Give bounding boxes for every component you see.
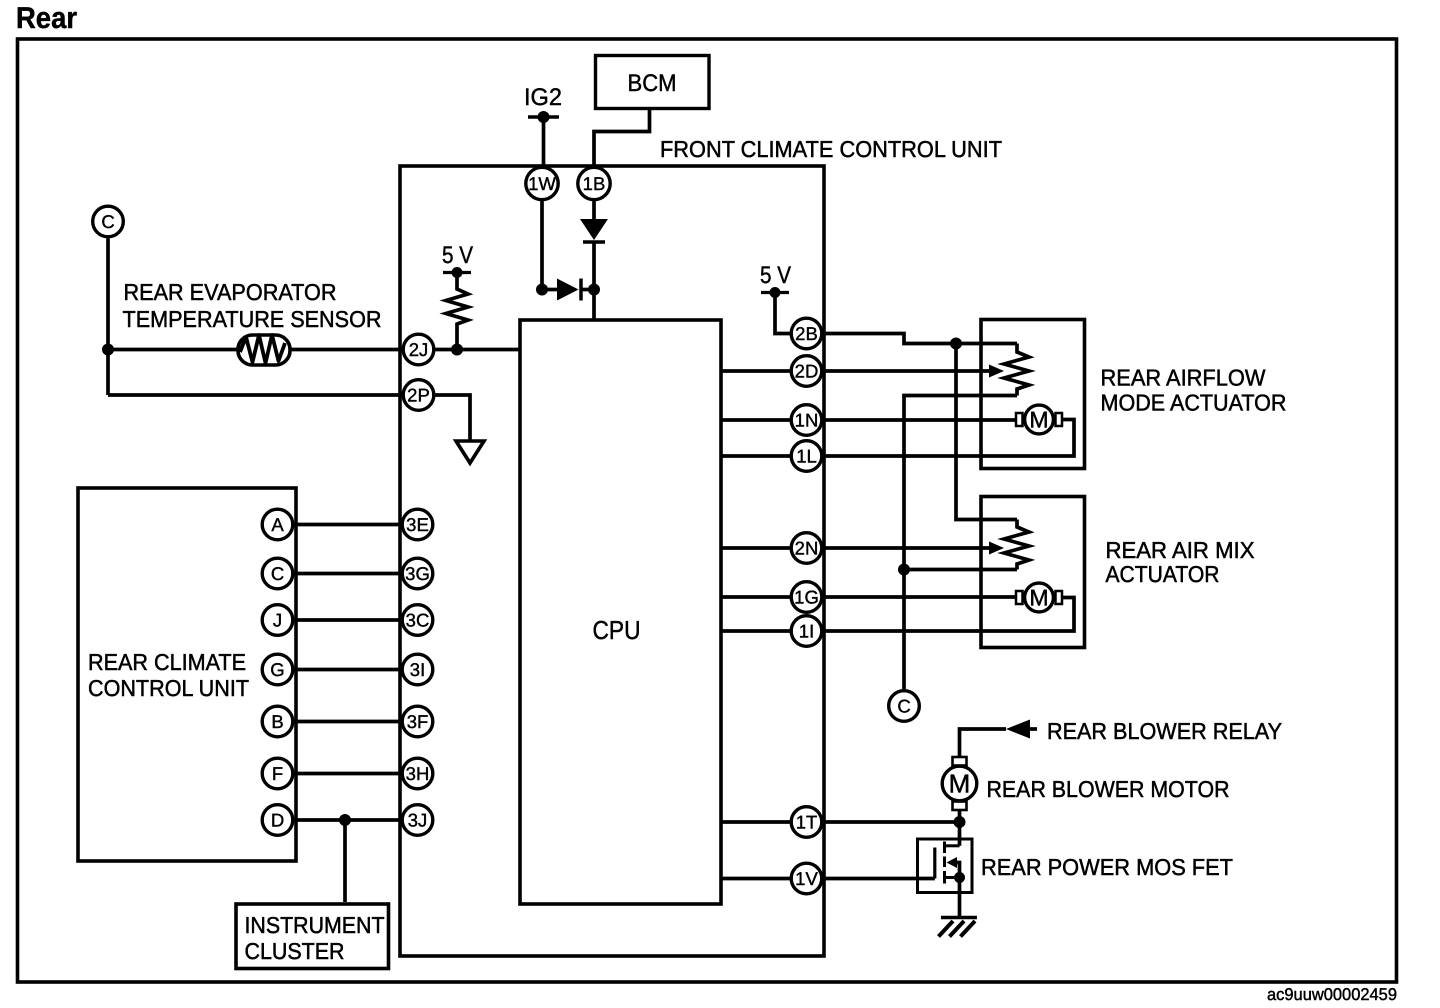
svg-text:REAR POWER MOS FET: REAR POWER MOS FET xyxy=(981,854,1233,880)
svg-text:CONTROL UNIT: CONTROL UNIT xyxy=(88,675,249,701)
pin 1W xyxy=(526,167,558,199)
BCM box U2 xyxy=(596,56,710,109)
pin 3I xyxy=(402,654,433,685)
wire to instrument cluster xyxy=(343,820,347,902)
pin 2N xyxy=(791,533,822,564)
junction dot supply branch xyxy=(950,338,962,350)
wire CPU to 2N xyxy=(721,546,790,550)
wire R2 return xyxy=(904,568,1017,572)
svg-text:M: M xyxy=(1029,407,1048,433)
svg-text:1G: 1G xyxy=(794,587,819,608)
svg-text:REAR BLOWER RELAY: REAR BLOWER RELAY xyxy=(1047,718,1282,744)
wiper arrow air mix xyxy=(989,542,1004,555)
svg-text:F: F xyxy=(272,763,283,784)
wire 2P to ground xyxy=(435,395,470,441)
pin 1V xyxy=(791,863,822,894)
wire 1L to motor M1 return xyxy=(823,420,1074,457)
svg-text:IG2: IG2 xyxy=(524,84,562,111)
pin 2B xyxy=(791,318,822,349)
junction dot sensor branch xyxy=(102,344,114,356)
5V power symbol right xyxy=(761,287,789,298)
wire 1I to motor M2 return xyxy=(823,598,1074,632)
wire CPU to 1V xyxy=(721,877,790,881)
svg-text:FRONT CLIMATE CONTROL UNIT: FRONT CLIMATE CONTROL UNIT xyxy=(660,136,1002,162)
pin F xyxy=(262,758,293,789)
pin 3G xyxy=(402,558,433,589)
5V power symbol left xyxy=(443,267,471,278)
svg-text:MODE ACTUATOR: MODE ACTUATOR xyxy=(1101,390,1287,416)
wire from C down xyxy=(106,239,110,396)
svg-text:Rear: Rear xyxy=(16,2,77,35)
rear climate control unit box xyxy=(78,488,296,861)
wire 2J to CPU xyxy=(435,348,520,352)
wire 2D wiper xyxy=(823,369,990,373)
svg-text:1B: 1B xyxy=(583,173,606,194)
diode D2 xyxy=(542,279,594,301)
pin 1G xyxy=(791,582,822,613)
junction dot 2J node xyxy=(451,344,463,356)
rear airflow mode actuator box xyxy=(981,320,1085,469)
junction dot blower node xyxy=(954,816,966,828)
svg-text:M: M xyxy=(1029,585,1048,611)
svg-text:REAR BLOWER MOTOR: REAR BLOWER MOTOR xyxy=(987,776,1230,802)
pin C xyxy=(262,558,293,589)
junction dot return bus xyxy=(898,564,910,576)
label REAR CLIMATE CONTROL UNIT xyxy=(88,649,249,701)
wire J to 3C xyxy=(278,618,418,622)
svg-text:3G: 3G xyxy=(405,563,430,584)
svg-text:3J: 3J xyxy=(408,810,428,831)
svg-text:INSTRUMENT: INSTRUMENT xyxy=(245,912,385,938)
wire 1T to node xyxy=(823,820,960,824)
relay arrow xyxy=(1006,720,1037,739)
svg-text:C: C xyxy=(271,563,284,584)
svg-text:C: C xyxy=(101,211,114,232)
svg-text:3H: 3H xyxy=(406,763,430,784)
svg-text:1T: 1T xyxy=(796,812,818,833)
wire 1B down to diode D1 xyxy=(592,198,596,221)
wire CPU to 1I xyxy=(721,629,790,633)
wire 1W down to diode junction xyxy=(540,198,544,290)
svg-text:2J: 2J xyxy=(409,339,429,360)
thermistor sensor symbol xyxy=(238,335,290,365)
label REAR AIRFLOW MODE ACTUATOR xyxy=(1101,365,1287,416)
svg-text:B: B xyxy=(271,711,283,732)
wire 5V to 2B xyxy=(775,293,790,334)
svg-text:CLUSTER: CLUSTER xyxy=(245,938,345,964)
pin 2P xyxy=(403,380,434,411)
IG2 power symbol xyxy=(528,111,559,123)
junction dot at 1B diode xyxy=(588,284,600,296)
svg-text:1V: 1V xyxy=(795,868,818,889)
svg-text:G: G xyxy=(270,659,284,680)
wire motor to 1T node xyxy=(958,810,962,822)
wire node to MOSFET drain xyxy=(958,822,962,846)
svg-text:5 V: 5 V xyxy=(442,242,473,269)
svg-text:TEMPERATURE SENSOR: TEMPERATURE SENSOR xyxy=(123,306,382,332)
node C right xyxy=(889,691,920,722)
pin 3H xyxy=(402,758,433,789)
svg-text:1W: 1W xyxy=(528,173,556,194)
pin J xyxy=(262,605,293,636)
pin 1B xyxy=(578,167,610,199)
pin A xyxy=(262,509,293,540)
CPU box U1 xyxy=(520,320,721,904)
svg-text:REAR AIRFLOW: REAR AIRFLOW xyxy=(1101,365,1266,391)
svg-text:REAR EVAPORATOR: REAR EVAPORATOR xyxy=(124,279,337,305)
svg-text:2B: 2B xyxy=(795,323,818,344)
resistor R3 pull-up xyxy=(446,273,468,350)
net 2B supply to airflow potentiometer xyxy=(823,334,1017,344)
wire IG2 to 1W xyxy=(542,117,546,167)
wire C to 2P xyxy=(108,393,402,397)
svg-text:ACTUATOR: ACTUATOR xyxy=(1106,561,1220,587)
junction dot at 1W diode xyxy=(536,284,548,296)
svg-text:1N: 1N xyxy=(795,410,819,431)
wire CPU to 1T xyxy=(721,820,790,824)
pin 1N xyxy=(791,405,822,436)
wire D1 to CPU top xyxy=(592,242,596,320)
wire 1N to motor M1 xyxy=(823,418,1016,422)
svg-text:J: J xyxy=(273,610,282,631)
wire C to 3G xyxy=(278,572,418,576)
motor M1 xyxy=(1016,405,1062,434)
pin 3C xyxy=(402,605,433,636)
rear air mix actuator box xyxy=(981,497,1085,648)
label REAR EVAPORATOR TEMPERATURE SENSOR xyxy=(123,279,382,332)
svg-text:3F: 3F xyxy=(407,711,429,732)
wire source to chassis ground xyxy=(958,878,962,918)
pin B xyxy=(262,706,293,737)
svg-text:1I: 1I xyxy=(799,621,814,642)
pin 1I xyxy=(791,616,822,647)
svg-text:2D: 2D xyxy=(795,361,819,382)
svg-text:CPU: CPU xyxy=(593,615,641,645)
svg-text:ac9uuw00002459: ac9uuw00002459 xyxy=(1267,985,1397,1004)
svg-text:3E: 3E xyxy=(406,514,429,535)
chassis ground xyxy=(939,918,978,937)
label INSTRUMENT CLUSTER xyxy=(245,912,385,964)
pin 3F xyxy=(402,706,433,737)
junction dot instrument cluster xyxy=(339,814,351,826)
svg-text:2P: 2P xyxy=(407,385,430,406)
svg-text:BCM: BCM xyxy=(628,70,677,97)
svg-text:2N: 2N xyxy=(795,538,819,559)
pin 1L xyxy=(791,441,822,472)
svg-text:D: D xyxy=(271,810,284,831)
wire CPU to 2D xyxy=(721,369,790,373)
instrument cluster box xyxy=(236,904,389,969)
wire G to 3I xyxy=(278,668,418,672)
pin 1T xyxy=(791,807,822,838)
wire CPU to 1G xyxy=(721,595,790,599)
pin 2J xyxy=(403,334,434,365)
wire B to 3F xyxy=(278,720,418,724)
wire D to 3J xyxy=(278,818,418,822)
motor M3 rear blower xyxy=(942,757,977,810)
pin D xyxy=(262,805,293,836)
svg-text:A: A xyxy=(271,514,284,535)
motor M2 xyxy=(1016,583,1062,612)
node C left xyxy=(93,206,124,237)
wire C branch to sensor xyxy=(108,348,237,352)
wire relay to blower motor xyxy=(960,729,1007,757)
wire 1V to gate xyxy=(823,877,935,881)
svg-text:M: M xyxy=(949,769,971,799)
wire BCM to 1B xyxy=(594,110,650,167)
label REAR AIR MIX ACTUATOR xyxy=(1106,537,1255,587)
wire 1G to motor M2 xyxy=(823,595,1016,599)
wire R1 return xyxy=(904,396,1017,690)
transistor Q1 rear power MOS FET xyxy=(918,839,973,893)
svg-text:1L: 1L xyxy=(796,446,817,467)
wiper arrow airflow xyxy=(989,365,1004,378)
wire F to 3H xyxy=(278,772,418,776)
svg-text:REAR CLIMATE: REAR CLIMATE xyxy=(88,649,246,675)
wire CPU to 1N xyxy=(721,418,790,422)
resistor R2 air mix potentiometer xyxy=(1004,520,1029,570)
wire CPU to 1L xyxy=(721,454,790,458)
wire branch to air mix potentiometer xyxy=(956,344,1017,520)
ground symbol 2P xyxy=(456,441,484,463)
pin 2D xyxy=(791,356,822,387)
svg-text:C: C xyxy=(897,696,910,717)
resistor R1 airflow potentiometer xyxy=(1004,344,1029,396)
svg-text:5 V: 5 V xyxy=(760,262,791,289)
svg-text:3C: 3C xyxy=(406,610,430,631)
wire A to 3E xyxy=(278,523,418,527)
wire sensor to 2J xyxy=(290,348,402,352)
pin 3J xyxy=(402,805,433,836)
svg-text:3I: 3I xyxy=(410,659,425,680)
wire 2N wiper xyxy=(823,546,990,550)
front climate control unit box xyxy=(400,166,824,956)
pin 3E xyxy=(402,509,433,540)
svg-text:REAR AIR MIX: REAR AIR MIX xyxy=(1106,537,1255,563)
diode D1 xyxy=(580,219,608,242)
pin G xyxy=(262,654,293,685)
